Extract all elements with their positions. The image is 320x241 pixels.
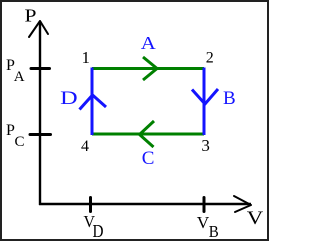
tick V_B	[203, 198, 206, 212]
process B line (right, blue)	[203, 68, 206, 136]
svg-text:1: 1	[82, 48, 91, 67]
svg-text:V: V	[247, 208, 264, 229]
arrow C (green, leftward chevron)	[140, 121, 155, 147]
process D line (left, blue)	[91, 68, 94, 136]
P axis (vertical)	[39, 21, 41, 205]
P axis arrowhead	[29, 21, 48, 37]
svg-text:D: D	[93, 221, 104, 241]
svg-text:3: 3	[201, 136, 210, 155]
tick P_C	[30, 133, 51, 136]
svg-text:2: 2	[206, 50, 214, 67]
V axis (horizontal)	[39, 203, 251, 205]
svg-text:D: D	[60, 88, 77, 109]
arrow B (blue, downward chevron)	[192, 89, 218, 104]
tick P_A	[31, 67, 50, 70]
svg-text:A: A	[14, 69, 25, 85]
arrow D (blue, upward chevron)	[80, 95, 107, 110]
svg-text:P: P	[25, 6, 37, 26]
svg-text:4: 4	[81, 138, 89, 155]
process A line (top, green)	[92, 67, 204, 70]
process C line (bottom, green)	[92, 133, 204, 136]
V axis arrowhead	[234, 196, 251, 212]
svg-text:C: C	[15, 134, 25, 150]
arrow A (green, rightward chevron)	[143, 57, 157, 80]
svg-text:C: C	[142, 148, 155, 169]
svg-text:B: B	[209, 222, 219, 241]
svg-text:B: B	[223, 88, 236, 109]
svg-text:A: A	[141, 33, 156, 53]
tick V_D	[89, 198, 92, 212]
